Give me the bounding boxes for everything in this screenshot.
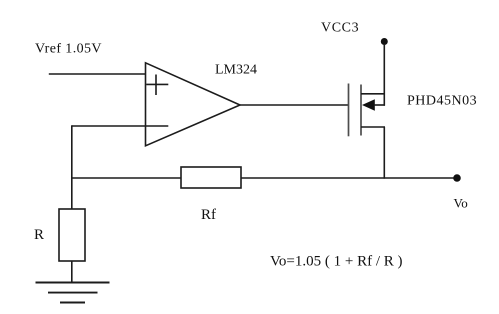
transistor Q1 source stub — [361, 126, 385, 128]
svg-text:R: R — [34, 227, 44, 243]
node VCC3 dot — [381, 38, 388, 45]
wire op-amp output to gate — [240, 104, 349, 106]
wire source down to output rail — [383, 127, 385, 179]
svg-text:Vref 1.05V: Vref 1.05V — [35, 42, 102, 57]
op-amp plus marker — [146, 75, 168, 96]
transistor Q1 drain stub — [361, 93, 385, 95]
wire feedback vertical — [71, 125, 73, 209]
resistor R — [59, 209, 85, 261]
wire R to ground — [71, 261, 73, 283]
svg-text:VCC3: VCC3 — [321, 21, 359, 36]
ground — [36, 283, 110, 303]
svg-text:Vo=1.05 ( 1 + Rf / R ): Vo=1.05 ( 1 + Rf / R ) — [270, 253, 402, 269]
svg-text:Rf: Rf — [201, 207, 216, 223]
svg-text:LM324: LM324 — [215, 63, 257, 78]
svg-text:PHD45N03: PHD45N03 — [407, 94, 477, 109]
wire VCC3 to drain — [383, 44, 385, 106]
op-amp U1 LM324 triangle — [146, 63, 241, 146]
wire noninverting input — [49, 73, 146, 75]
resistor Rf — [181, 167, 241, 188]
transistor Q1 PHD45N03 gate bar — [348, 84, 350, 137]
transistor Q1 channel bar — [360, 85, 362, 136]
wire output rail right of Rf — [241, 177, 454, 179]
node Vo dot — [453, 174, 461, 182]
transistor Q1 body arrow — [362, 99, 375, 110]
svg-text:Vo: Vo — [454, 196, 468, 211]
wire inverting input — [72, 125, 169, 127]
wire output rail left of Rf — [72, 177, 181, 179]
